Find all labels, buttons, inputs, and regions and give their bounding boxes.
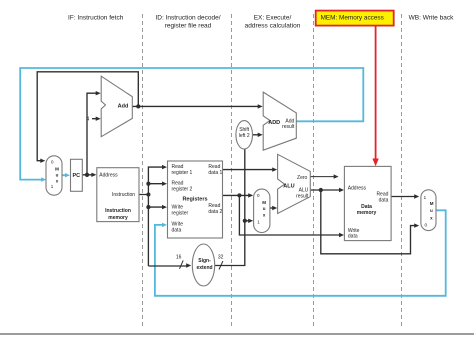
svg-text:M: M xyxy=(262,200,266,205)
svg-text:WB: Write back: WB: Write back xyxy=(409,15,454,22)
svg-text:data: data xyxy=(379,197,389,203)
svg-text:32: 32 xyxy=(218,255,224,261)
svg-text:ALU: ALU xyxy=(283,183,294,189)
svg-text:16: 16 xyxy=(176,254,182,260)
svg-text:data 2: data 2 xyxy=(208,209,222,215)
svg-text:4: 4 xyxy=(86,117,89,123)
svg-text:Address: Address xyxy=(99,173,118,179)
svg-text:ADD: ADD xyxy=(268,120,280,126)
svg-text:register: register xyxy=(172,210,189,216)
svg-text:memory: memory xyxy=(108,215,128,221)
svg-text:PC: PC xyxy=(72,173,80,179)
svg-text:register file read: register file read xyxy=(165,22,212,29)
svg-text:data 1: data 1 xyxy=(208,170,222,176)
svg-text:ID: Instruction decode/: ID: Instruction decode/ xyxy=(155,15,220,22)
svg-text:register 2: register 2 xyxy=(172,186,193,192)
svg-text:u: u xyxy=(56,173,59,178)
svg-text:data: data xyxy=(348,234,358,240)
svg-text:left 2: left 2 xyxy=(239,133,250,139)
svg-text:data: data xyxy=(172,227,182,233)
svg-text:MEM: Memory access: MEM: Memory access xyxy=(321,14,384,21)
svg-text:M: M xyxy=(430,201,434,206)
svg-text:memory: memory xyxy=(357,210,377,216)
svg-text:address calculation: address calculation xyxy=(245,22,301,29)
svg-text:register 1: register 1 xyxy=(172,170,193,176)
svg-text:result: result xyxy=(296,193,309,199)
svg-text:u: u xyxy=(263,206,266,211)
svg-text:EX: Execute/: EX: Execute/ xyxy=(254,15,292,22)
svg-text:IF: Instruction fetch: IF: Instruction fetch xyxy=(68,15,124,22)
svg-text:Address: Address xyxy=(348,186,367,192)
svg-text:Add: Add xyxy=(118,104,129,110)
svg-text:u: u xyxy=(430,208,433,213)
svg-text:Instruction: Instruction xyxy=(105,208,131,214)
svg-text:extend: extend xyxy=(196,265,212,271)
svg-text:Instruction: Instruction xyxy=(112,192,135,198)
svg-text:Sign-: Sign- xyxy=(198,258,211,264)
svg-text:result: result xyxy=(282,124,295,130)
svg-text:Registers: Registers xyxy=(182,196,207,202)
svg-text:Zero: Zero xyxy=(297,175,308,181)
svg-text:M: M xyxy=(55,167,59,172)
